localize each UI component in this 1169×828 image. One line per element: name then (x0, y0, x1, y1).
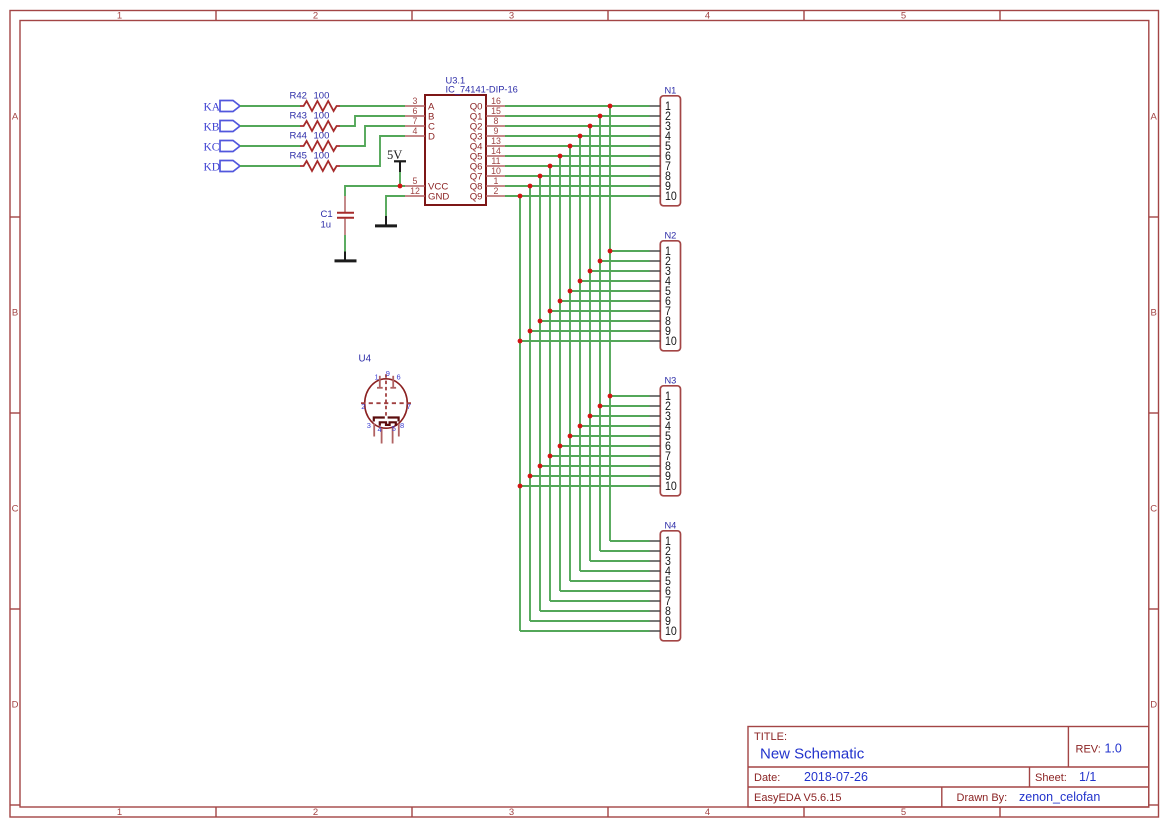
wire (589, 126, 591, 561)
svg-text:B: B (12, 308, 18, 319)
wire (559, 156, 561, 591)
junction (558, 154, 563, 159)
svg-text:12: 12 (410, 186, 420, 196)
svg-text:D: D (428, 131, 435, 142)
svg-text:GND: GND (428, 191, 449, 202)
connector N3 pin 9 (650, 471, 671, 484)
connector N3 pin 8 (650, 461, 671, 474)
wire (610, 250, 650, 252)
wire (505, 175, 650, 177)
connector N1 pin 10 (650, 191, 677, 204)
svg-text:2018-07-26: 2018-07-26 (804, 770, 868, 784)
wire (344, 235, 346, 252)
wire (240, 145, 300, 147)
svg-text:1: 1 (117, 807, 122, 818)
svg-text:9: 9 (494, 126, 499, 136)
capacitor C1 1u (321, 196, 355, 235)
svg-text:D: D (12, 700, 19, 711)
wire (570, 580, 650, 582)
wire (610, 395, 650, 397)
junction (538, 464, 543, 469)
pin 5 VCC (405, 176, 448, 192)
connector N4 pin 5 (650, 576, 671, 589)
svg-text:10: 10 (665, 481, 677, 494)
pin 6 B (405, 106, 434, 122)
net flag KD (204, 161, 241, 174)
connector N2 pin 2 (650, 256, 671, 269)
connector N3 pin 3 (650, 411, 671, 424)
pin 14 Q5 (470, 146, 505, 162)
junction (608, 249, 613, 254)
net flag KC (204, 141, 241, 154)
wire (550, 600, 650, 602)
junction (568, 434, 573, 439)
wire (550, 310, 650, 312)
wire (540, 465, 650, 467)
junction (588, 124, 593, 129)
junction (598, 114, 603, 119)
pin 15 Q1 (470, 106, 505, 122)
connector N1 pin 6 (650, 151, 671, 164)
svg-text:N4: N4 (664, 521, 676, 531)
connector N3 pin 7 (650, 451, 671, 464)
wire (520, 485, 650, 487)
svg-text:1u: 1u (321, 220, 332, 231)
svg-text:10: 10 (665, 336, 677, 349)
net flag KB (204, 121, 241, 134)
svg-text:15: 15 (491, 106, 501, 116)
svg-text:8: 8 (400, 421, 404, 430)
pin 1 Q8 (470, 176, 505, 192)
junction (538, 319, 543, 324)
connector N2 pin 5 (650, 286, 671, 299)
junction (578, 279, 583, 284)
wire (580, 425, 650, 427)
connector N1 pin 5 (650, 141, 671, 154)
wire (505, 145, 650, 147)
svg-text:9: 9 (386, 369, 390, 378)
pin 3 A (405, 96, 435, 112)
svg-text:7: 7 (407, 402, 411, 411)
wire (505, 155, 650, 157)
connector N4 (660, 521, 680, 641)
wire (505, 105, 650, 107)
junction (538, 174, 543, 179)
resistor R45 100 (290, 151, 340, 172)
resistor R44 100 (290, 131, 340, 152)
svg-text:3: 3 (413, 96, 418, 106)
svg-text:C1: C1 (321, 209, 333, 220)
junction (558, 444, 563, 449)
wire (569, 146, 571, 581)
junction (578, 424, 583, 429)
power symbol 5V (387, 148, 406, 172)
junction (518, 339, 523, 344)
wire (340, 116, 405, 126)
op-amp U3.1 IC_74141-DIP-16 body (425, 76, 518, 206)
connector N1 (660, 86, 680, 206)
wire (600, 550, 650, 552)
svg-text:100: 100 (314, 111, 330, 122)
junction (528, 184, 533, 189)
svg-text:1.0: 1.0 (1105, 742, 1122, 756)
svg-text:IC_74141-DIP-16: IC_74141-DIP-16 (446, 85, 518, 95)
svg-text:2: 2 (313, 807, 318, 818)
svg-text:3: 3 (509, 10, 514, 21)
svg-text:10: 10 (665, 626, 677, 639)
svg-text:13: 13 (491, 136, 501, 146)
wire (340, 126, 405, 146)
junction (558, 299, 563, 304)
svg-text:5: 5 (901, 807, 906, 818)
connector N1 pin 2 (650, 111, 671, 124)
svg-text:KC: KC (204, 142, 220, 154)
connector N2 (660, 231, 680, 351)
wire (519, 196, 521, 631)
svg-text:C: C (12, 504, 19, 515)
wire (340, 136, 405, 166)
svg-text:2: 2 (494, 186, 499, 196)
pin 13 Q4 (470, 136, 505, 152)
wire (505, 115, 650, 117)
connector N2 pin 3 (650, 266, 671, 279)
svg-text:5V: 5V (387, 148, 402, 162)
connector N3 (660, 376, 680, 496)
wire (540, 320, 650, 322)
connector N4 pin 9 (650, 616, 671, 629)
wire (505, 185, 650, 187)
net flag KA (204, 101, 241, 114)
connector N1 pin 3 (650, 121, 671, 134)
wire (240, 165, 300, 167)
wire (505, 135, 650, 137)
pin 10 Q7 (470, 166, 505, 182)
junction (568, 144, 573, 149)
wire (520, 340, 650, 342)
connector N3 pin 4 (650, 421, 671, 434)
connector N3 pin 6 (650, 441, 671, 454)
svg-text:zenon_celofan: zenon_celofan (1019, 790, 1100, 804)
junction (598, 404, 603, 409)
connector N2 pin 7 (650, 306, 671, 319)
svg-text:Drawn By:: Drawn By: (957, 792, 1008, 804)
svg-text:10: 10 (665, 191, 677, 204)
wire (560, 590, 650, 592)
connector N2 pin 4 (650, 276, 671, 289)
svg-text:100: 100 (314, 91, 330, 102)
wire (530, 330, 650, 332)
pin 11 Q6 (470, 156, 505, 172)
svg-text:5: 5 (392, 424, 396, 433)
svg-text:4: 4 (413, 126, 418, 136)
svg-text:10: 10 (491, 166, 501, 176)
wire (590, 270, 650, 272)
svg-text:100: 100 (314, 131, 330, 142)
ground under C1 (335, 252, 357, 261)
connector N2 pin 10 (650, 336, 677, 349)
svg-text:EasyEDA V5.6.15: EasyEDA V5.6.15 (754, 792, 841, 804)
connector N1 pin 7 (650, 161, 671, 174)
pin 16 Q0 (470, 96, 505, 112)
wire (579, 136, 581, 571)
wire (505, 195, 650, 197)
svg-text:2: 2 (361, 402, 365, 411)
wire (530, 620, 650, 622)
svg-text:4: 4 (705, 10, 710, 21)
wire (240, 105, 300, 107)
svg-text:REV:: REV: (1076, 744, 1101, 756)
junction (548, 164, 553, 169)
connector N4 pin 6 (650, 586, 671, 599)
svg-text:New Schematic: New Schematic (760, 746, 865, 763)
svg-text:N2: N2 (664, 231, 676, 241)
connector N2 pin 1 (650, 246, 671, 259)
connector N4 pin 1 (650, 536, 671, 549)
svg-text:6: 6 (413, 106, 418, 116)
junction (598, 259, 603, 264)
connector N3 pin 5 (650, 431, 671, 444)
junction (518, 484, 523, 489)
wire (570, 290, 650, 292)
junction (518, 194, 523, 199)
wire (550, 455, 650, 457)
svg-text:Sheet:: Sheet: (1035, 772, 1067, 784)
junction (548, 309, 553, 314)
junction (578, 134, 583, 139)
svg-text:KB: KB (204, 122, 220, 134)
junction (608, 394, 613, 399)
svg-text:R43: R43 (290, 111, 307, 122)
wire (570, 435, 650, 437)
pin 9 Q3 (470, 126, 505, 142)
connector N3 pin 10 (650, 481, 677, 494)
pin 12 GND (405, 186, 449, 202)
connector N3 pin 2 (650, 401, 671, 414)
connector N1 pin 8 (650, 171, 671, 184)
svg-text:A: A (12, 112, 19, 123)
resistor R43 100 (290, 111, 340, 132)
wire (600, 405, 650, 407)
svg-text:16: 16 (491, 96, 501, 106)
wire (609, 106, 611, 541)
connector N3 pin 1 (650, 391, 671, 404)
pin 2 Q9 (470, 186, 505, 202)
svg-text:KD: KD (204, 162, 221, 174)
svg-text:11: 11 (491, 156, 500, 166)
pin 7 C (405, 116, 435, 132)
wire (580, 280, 650, 282)
wire (540, 610, 650, 612)
svg-text:5: 5 (413, 176, 418, 186)
vacuum tube U4 (359, 354, 412, 444)
pin 4 D (405, 126, 435, 142)
svg-text:D: D (1150, 700, 1157, 711)
wire (590, 560, 650, 562)
connector N1 pin 9 (650, 181, 671, 194)
svg-text:3: 3 (367, 421, 371, 430)
svg-text:14: 14 (491, 146, 501, 156)
svg-text:A: A (1151, 112, 1158, 123)
wire (399, 172, 401, 186)
pin 8 Q2 (470, 116, 505, 132)
svg-text:2: 2 (313, 10, 318, 21)
connector N1 pin 4 (650, 131, 671, 144)
svg-text:U4: U4 (359, 354, 372, 365)
wire (610, 540, 650, 542)
svg-text:C: C (1150, 504, 1157, 515)
svg-text:1: 1 (494, 176, 499, 186)
wire (590, 415, 650, 417)
connector N4 pin 7 (650, 596, 671, 609)
svg-text:6: 6 (397, 373, 401, 382)
connector N2 pin 8 (650, 316, 671, 329)
svg-text:R44: R44 (290, 131, 307, 142)
connector N2 pin 6 (650, 296, 671, 309)
svg-text:4: 4 (378, 425, 382, 434)
svg-text:3: 3 (509, 807, 514, 818)
junction (568, 289, 573, 294)
junction (548, 454, 553, 459)
connector N4 pin 8 (650, 606, 671, 619)
wire (520, 630, 650, 632)
junction (608, 104, 613, 109)
junction (588, 269, 593, 274)
svg-text:N1: N1 (664, 86, 676, 96)
svg-text:1: 1 (117, 10, 122, 21)
junction (528, 329, 533, 334)
wire VCC net (345, 186, 405, 196)
wire (580, 570, 650, 572)
connector N2 pin 9 (650, 326, 671, 339)
svg-text:7: 7 (413, 116, 418, 126)
svg-text:N3: N3 (664, 376, 676, 386)
wire (560, 300, 650, 302)
wire GND net (386, 196, 405, 216)
junction (398, 184, 403, 189)
svg-text:100: 100 (314, 151, 330, 162)
wire (529, 186, 531, 621)
junction (528, 474, 533, 479)
wire (539, 176, 541, 611)
ground under GND pin (375, 216, 397, 226)
wire (530, 475, 650, 477)
wire (340, 105, 405, 107)
svg-text:1: 1 (375, 373, 379, 382)
svg-text:4: 4 (705, 807, 710, 818)
wire (599, 116, 601, 551)
connector N4 pin 10 (650, 626, 677, 639)
wire (505, 165, 650, 167)
connector N1 pin 1 (650, 101, 671, 114)
svg-text:B: B (1151, 308, 1157, 319)
svg-text:TITLE:: TITLE: (754, 731, 787, 743)
connector N4 pin 4 (650, 566, 671, 579)
junction (588, 414, 593, 419)
svg-text:Q9: Q9 (470, 191, 483, 202)
resistor R42 100 (290, 91, 340, 112)
connector N4 pin 2 (650, 546, 671, 559)
svg-text:R42: R42 (290, 91, 307, 102)
svg-text:1/1: 1/1 (1079, 770, 1096, 784)
connector N4 pin 3 (650, 556, 671, 569)
wire (600, 260, 650, 262)
svg-text:Date:: Date: (754, 772, 780, 784)
wire (505, 125, 650, 127)
svg-text:R45: R45 (290, 151, 307, 162)
svg-text:5: 5 (901, 10, 906, 21)
svg-text:KA: KA (204, 102, 221, 114)
wire (560, 445, 650, 447)
svg-text:8: 8 (494, 116, 499, 126)
wire (240, 125, 300, 127)
wire (549, 166, 551, 601)
